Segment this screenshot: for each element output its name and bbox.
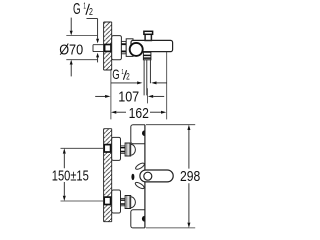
shower outlet pipe lines bbox=[144, 60, 150, 96]
dimension Ø70: extension lines bbox=[66, 36, 97, 60]
mixer body (side view) bbox=[131, 40, 173, 51]
thermostat handle (circle, side view) bbox=[130, 43, 143, 56]
bottom connection: wall union square bbox=[104, 197, 110, 204]
bottom connection: dome cap bbox=[131, 197, 136, 208]
svg-text:1: 1 bbox=[83, 2, 86, 11]
top connection: escutcheon bbox=[112, 137, 121, 160]
lever handle (pill) bbox=[140, 170, 173, 182]
dimension 150±15: extension lines bbox=[61, 148, 104, 201]
bottom connection: escutcheon bbox=[112, 190, 121, 213]
svg-text:2: 2 bbox=[89, 7, 93, 18]
wall (bottom view) hatched section bbox=[104, 129, 112, 222]
wall union square (G1/2 thread) bbox=[105, 45, 111, 52]
298 dimension line with arrows bbox=[187, 125, 190, 228]
top outlet box bbox=[131, 125, 145, 144]
bottom connection: union bbox=[121, 198, 126, 205]
svg-text:107: 107 bbox=[118, 89, 139, 106]
diverter knob stem bbox=[145, 34, 151, 41]
top connection: wall union square bbox=[104, 145, 110, 152]
leader line from G1/2 label bbox=[87, 19, 98, 39]
body front edge line bbox=[144, 125, 146, 228]
G1/2 pointer arrows at outlet pipe bbox=[111, 81, 167, 84]
lever upper ear bbox=[135, 162, 146, 171]
Ø70 lower arrow bbox=[70, 64, 72, 76]
dimension 107 bbox=[95, 89, 164, 106]
svg-text:162: 162 bbox=[129, 105, 149, 122]
dimension 298: extension lines bbox=[146, 125, 195, 228]
extension line from body end (162 dim) bbox=[166, 52, 168, 120]
label G1/2 (shower outlet) bbox=[112, 67, 130, 82]
lever screw circle bbox=[144, 172, 152, 180]
svg-text:298: 298 bbox=[180, 168, 200, 185]
S-union connector bbox=[121, 41, 129, 53]
arrow up to supply pipe bbox=[96, 53, 99, 58]
diverter knob cap bbox=[144, 31, 153, 34]
label G1/2 (top supply) bbox=[73, 1, 93, 18]
dimension 162 bbox=[111, 105, 166, 122]
lever lower ear bbox=[134, 181, 145, 190]
svg-text:2: 2 bbox=[126, 72, 130, 82]
bottom box screw (dark half circle) bbox=[142, 216, 145, 222]
shower outlet nut below body bbox=[143, 52, 151, 60]
bottom connection: hex nut bbox=[125, 196, 131, 209]
svg-text:150±15: 150±15 bbox=[52, 168, 89, 185]
svg-text:G: G bbox=[73, 1, 81, 18]
wall (side view) hatched section bbox=[104, 22, 112, 70]
top connection: hex nut bbox=[125, 143, 131, 156]
lever end dark tip bbox=[131, 174, 134, 180]
svg-text:1: 1 bbox=[121, 67, 123, 76]
escutcheon (side view) bbox=[112, 36, 122, 60]
svg-text:Ø70: Ø70 bbox=[59, 42, 83, 59]
top box screw (dark half circle) bbox=[142, 130, 145, 136]
arrow down to supply pipe bbox=[96, 39, 99, 44]
supply pipe stub through wall bbox=[93, 45, 104, 52]
150±15 dimension line with arrows bbox=[63, 148, 66, 201]
bottom outlet box bbox=[131, 210, 145, 228]
extension line from outlet pipe (107 dim) bbox=[146, 88, 148, 103]
Ø70 upper arrow bbox=[70, 18, 72, 31]
svg-text:G: G bbox=[112, 67, 119, 82]
union hex nut bbox=[126, 39, 133, 57]
top connection: union bbox=[121, 146, 126, 153]
extension line from wall face bbox=[110, 70, 112, 119]
top connection: dome cap bbox=[131, 144, 136, 155]
